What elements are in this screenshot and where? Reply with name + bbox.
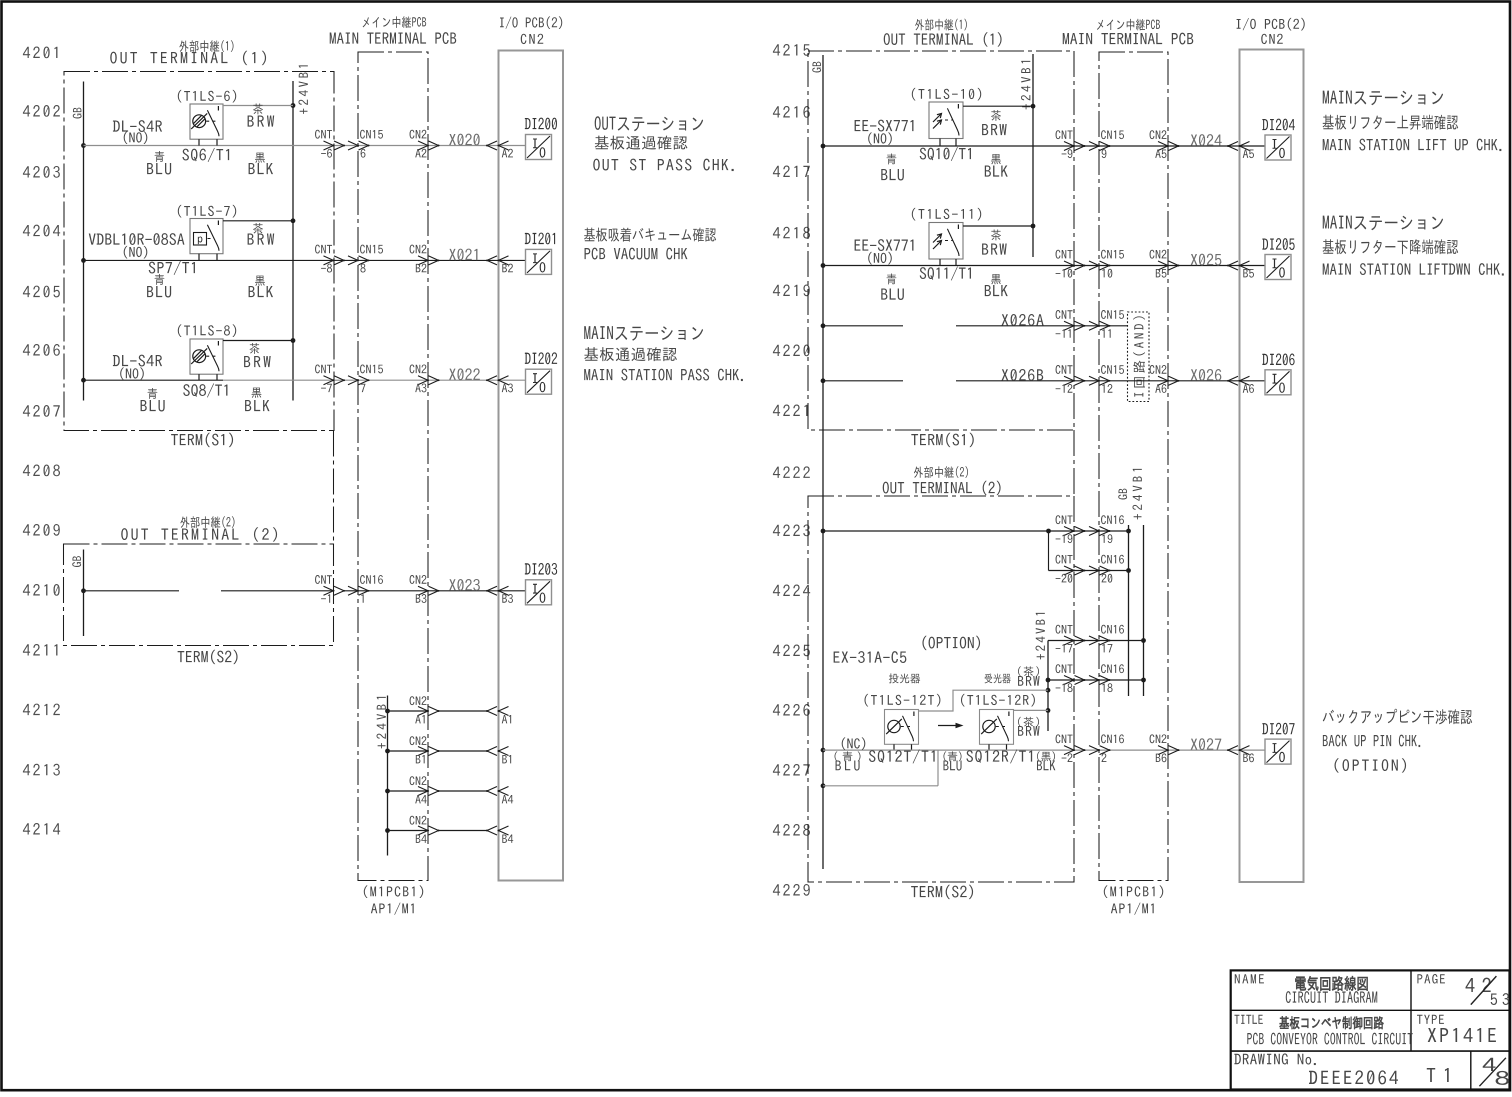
labels EX-31A-C5 (OPTION) bbox=[834, 636, 1040, 736]
label MAIN TERMINAL PCB header left bbox=[330, 16, 456, 44]
connector CN2-A3 left bbox=[410, 364, 440, 392]
I/O input DI202 bbox=[525, 352, 557, 394]
wire SQ8 row (GB to DI202) bbox=[84, 379, 526, 381]
connector CN2-B1 bbox=[410, 736, 440, 763]
AND circuit box (I回路(AND)) bbox=[1128, 312, 1150, 402]
node X023 bbox=[449, 579, 480, 591]
beam emitter SQ12T/T1 (T1LS-12T) bbox=[885, 710, 919, 751]
wire +24VB1 to CN2 B4 bbox=[388, 830, 488, 832]
title block DRAWING No cell bbox=[1234, 1053, 1398, 1084]
OUT TERMINAL (1) enclosure left bbox=[64, 72, 334, 431]
connector I/O B4 bbox=[486, 826, 513, 843]
connector CN15-9 bbox=[1089, 130, 1124, 158]
connector CNT-7 bbox=[315, 364, 345, 392]
limit switch SQ6/T1 (T1LS-6) DL-S4R bbox=[190, 104, 223, 146]
labels for SQ10 row bbox=[855, 88, 1008, 181]
connector CN2-B3 left bbox=[410, 575, 440, 603]
net-number column right (4215-4229) bbox=[773, 44, 810, 896]
connector CNT-2 bbox=[1056, 734, 1086, 762]
vacuum switch SP7/T1 (T1LS-7) VDBL10R-08SA bbox=[190, 219, 223, 261]
OUT TERMINAL (1) enclosure right bbox=[808, 51, 1074, 430]
connector CNT-10 bbox=[1056, 250, 1086, 278]
labels for SQ8 row bbox=[113, 324, 271, 411]
node X021 bbox=[449, 249, 477, 261]
connector CNT-1 bbox=[315, 575, 345, 603]
node GB rail M1PCB1 bbox=[1118, 489, 1131, 696]
wire CNT-18 row bbox=[1048, 679, 1144, 681]
node +24VB1 rail left upper bbox=[291, 65, 308, 400]
connector I/O B6 bbox=[1227, 746, 1254, 763]
node GB rail left lower bbox=[72, 550, 86, 637]
label TERM(S2) left bbox=[178, 650, 238, 664]
annotation MAIN STATION PASS CHK bbox=[584, 326, 743, 381]
connector I/O A3 row3 bbox=[486, 376, 513, 393]
label (M1PCB1) AP1/M1 right bbox=[1104, 885, 1163, 914]
label TERM(S1) left bbox=[171, 433, 233, 447]
title block PAGE cell bbox=[1417, 974, 1509, 1005]
connector CN2-A4 bbox=[410, 776, 440, 803]
beam receiver SQ12R/T1 (T1LS-12R) bbox=[980, 710, 1014, 751]
wire X026A bbox=[823, 314, 1128, 326]
connector CN2-A2 left bbox=[410, 130, 440, 158]
wire SQ10 row (GB to DI204) bbox=[823, 145, 1265, 147]
node X025 bbox=[1191, 254, 1222, 266]
annotation PCB VACUUM CHK bbox=[584, 228, 716, 260]
I/O input DI204 bbox=[1262, 119, 1295, 160]
net-number column left (4201-4214) bbox=[23, 46, 60, 834]
connector CN16-20 bbox=[1089, 555, 1124, 583]
node +24VB1 stub (EX-31A supply) bbox=[1035, 613, 1050, 731]
connector I/O B3 row4 bbox=[486, 586, 513, 603]
connector CN2-B2 left bbox=[410, 245, 440, 273]
connector CNT-8 bbox=[315, 245, 345, 273]
connector CN15-6 bbox=[348, 130, 383, 158]
node +24VB1 rail right upper bbox=[1021, 54, 1035, 257]
connector I/O A1 bbox=[486, 707, 511, 724]
label OUT TERMINAL (1) header right bbox=[884, 19, 1002, 47]
annotation MAIN STATION LIFTDWN CHK bbox=[1323, 216, 1504, 276]
wire +24VB1 to CN2 A1 bbox=[388, 710, 488, 712]
node GB rail left upper bbox=[73, 82, 86, 401]
title block frame bbox=[1231, 970, 1510, 1089]
title block T1 cell bbox=[1427, 1068, 1449, 1082]
annotation OUT ST PASS CHK bbox=[593, 116, 733, 171]
labels for SP7 row bbox=[89, 205, 274, 298]
connector I/O A5 bbox=[1227, 142, 1254, 159]
node +24VB1 rail M1PCB1 bbox=[1132, 469, 1145, 696]
I/O input DI206 bbox=[1262, 353, 1294, 394]
wire BRW SQ6 to +24VB1 bbox=[223, 105, 293, 107]
connector CNT-17 bbox=[1056, 625, 1086, 653]
connector CN2-B5 bbox=[1150, 250, 1180, 278]
connector I/O A2 row1 bbox=[486, 141, 513, 157]
connector I/O B2 row2 bbox=[486, 256, 513, 272]
node X027 bbox=[1191, 738, 1222, 750]
title block sheet cell bbox=[1479, 1058, 1509, 1086]
wire X026B bbox=[823, 369, 1128, 381]
node +24VB1 rail left lower bbox=[376, 696, 389, 856]
label OUT TERMINAL (2) header left bbox=[121, 516, 277, 541]
wire OUT TERMINAL (2) row (GB to DI203) bbox=[84, 590, 526, 592]
label OUT TERMINAL (2) header right bbox=[883, 466, 1001, 495]
connector CNT-19 bbox=[1056, 515, 1086, 543]
node GB rail right bbox=[812, 55, 825, 869]
node X024 bbox=[1191, 134, 1222, 146]
connector CN16-18 bbox=[1089, 664, 1124, 692]
connector CN2-A5 bbox=[1150, 130, 1180, 158]
node X022 bbox=[449, 368, 480, 380]
I/O input DI207 bbox=[1262, 723, 1294, 764]
connector CN15-10 bbox=[1089, 250, 1124, 278]
wire SQ12 row (GB to CNT-2) bbox=[823, 749, 1265, 751]
I/O input DI205 bbox=[1262, 238, 1294, 279]
wire BRW SQ8 to +24VB1 bbox=[223, 340, 293, 342]
wire +24VB1 to CN2 B1 bbox=[388, 750, 488, 752]
wire BRW T1LS-12R to +24VB1 bbox=[1014, 709, 1049, 711]
wire SQ11 row (GB to DI205) bbox=[823, 265, 1265, 267]
I/O PCB(2) enclosure right bbox=[1240, 50, 1304, 883]
CNT cable boundary right bbox=[1073, 430, 1075, 496]
label TERM(S2) right bbox=[911, 885, 973, 899]
label I/O PCB(2) CN2 header right bbox=[1237, 18, 1305, 44]
OUT TERMINAL (2) enclosure left bbox=[64, 544, 334, 646]
OUT TERMINAL (2) enclosure right bbox=[808, 496, 1074, 882]
photo switch SQ10/T1 (T1LS-10) EE-SX771 bbox=[929, 102, 963, 146]
label I/O PCB(2) CN2 header left bbox=[500, 16, 562, 44]
label (M1PCB1) AP1/M1 left bbox=[364, 885, 423, 914]
title block NAME cell bbox=[1235, 974, 1377, 1003]
I/O input DI200 bbox=[525, 118, 557, 160]
connector CN15-12 bbox=[1089, 365, 1124, 393]
wire SQ12 blue return bbox=[823, 750, 938, 786]
wire BRW T1LS-12T to +24VB1 bbox=[919, 690, 1049, 711]
wire SP7 row (GB to DI201) bbox=[84, 259, 526, 261]
connector CN2-A6 bbox=[1150, 365, 1180, 393]
wire CNT-19 row bbox=[823, 529, 1129, 534]
connector CNT-20 bbox=[1056, 555, 1086, 583]
wire SQ6 row (GB to DI200) bbox=[84, 145, 526, 147]
connector CN16-17 bbox=[1089, 625, 1124, 653]
I/O input DI201 bbox=[525, 233, 555, 275]
connector I/O B5 bbox=[1227, 261, 1254, 278]
wire +24VB1 to CN2 A4 bbox=[388, 790, 488, 792]
connector CN2-B6 bbox=[1150, 734, 1180, 762]
MAIN TERMINAL PCB enclosure left (chain border, CN15/CN16 left edge, CN2 right edge) bbox=[358, 52, 428, 881]
connector CN16-1 bbox=[348, 575, 383, 603]
title block TYPE cell bbox=[1417, 1015, 1496, 1042]
photo switch SQ11/T1 (T1LS-11) EE-SX771 bbox=[929, 223, 963, 266]
annotation MAIN STATION LIFT UP CHK bbox=[1323, 91, 1502, 151]
I/O input DI203 bbox=[525, 563, 557, 605]
label OUT TERMINAL (1) header bbox=[110, 40, 266, 65]
connector I/O A4 bbox=[486, 787, 513, 804]
annotation BACK UP PIN CHK bbox=[1323, 709, 1472, 773]
connector CN2-B4 bbox=[410, 816, 440, 843]
connector I/O A6 bbox=[1227, 376, 1254, 393]
wire BRW SP7 to +24VB1 bbox=[223, 220, 293, 222]
connector CNT-18 bbox=[1056, 664, 1086, 692]
limit switch SQ8/T1 (T1LS-8) DL-S4R bbox=[190, 339, 223, 380]
title block TITLE cell bbox=[1234, 1015, 1412, 1045]
node X026 bbox=[1191, 369, 1222, 381]
labels for SQ11 row bbox=[855, 208, 1008, 300]
connector CNT-9 bbox=[1056, 130, 1086, 158]
node X020 bbox=[449, 134, 480, 146]
labels for SQ6 row bbox=[113, 90, 274, 175]
label TERM(S1) right bbox=[911, 433, 973, 447]
labels SQ12 row bbox=[835, 737, 1056, 770]
connector CN15-7 bbox=[348, 364, 383, 392]
connector CN15-8 bbox=[348, 245, 383, 273]
CNT cable boundary left bbox=[333, 431, 335, 545]
connector CNT-12 bbox=[1056, 365, 1086, 393]
MAIN TERMINAL PCB enclosure right bbox=[1099, 52, 1168, 881]
connector CN15-11 bbox=[1089, 310, 1124, 338]
label MAIN TERMINAL PCB header right bbox=[1063, 19, 1194, 45]
connector I/O B1 bbox=[486, 747, 511, 764]
connector CN2-A1 bbox=[410, 696, 440, 723]
connector CNT-11 bbox=[1056, 310, 1086, 338]
wire X026 output bbox=[1128, 380, 1266, 382]
wire BRW SQ11 to +24VB1 bbox=[963, 225, 1033, 227]
beam arrow bbox=[938, 723, 964, 729]
connector CN16-19 bbox=[1089, 515, 1124, 543]
wire CNT-20 row bbox=[1049, 531, 1129, 571]
connector CNT-6 bbox=[315, 130, 345, 158]
I/O PCB(2) enclosure left bbox=[499, 51, 564, 881]
connector CN16-2 bbox=[1089, 734, 1124, 762]
wire CNT-17 row bbox=[1048, 640, 1144, 642]
wire BRW SQ10 to +24VB1 bbox=[963, 105, 1033, 107]
